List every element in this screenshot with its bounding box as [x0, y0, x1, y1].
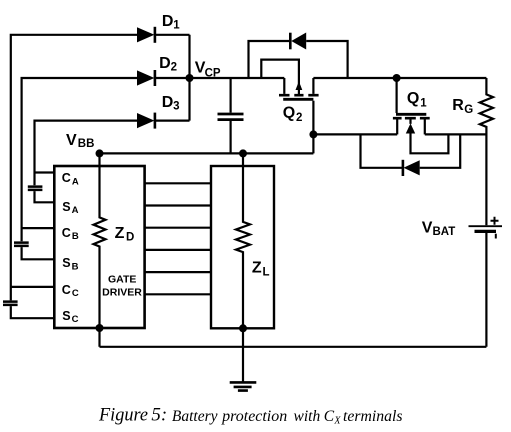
svg-text:L: L	[263, 266, 270, 278]
wire top rail (Q2 drain to RG top)	[313, 77, 486, 79]
svg-text:V: V	[66, 132, 77, 149]
svg-text:V: V	[422, 219, 433, 236]
svg-text:R: R	[452, 97, 464, 114]
svg-text:B: B	[72, 261, 79, 272]
svg-text:1: 1	[173, 19, 180, 31]
svg-text:S: S	[62, 200, 70, 214]
wire driver output rung 1	[145, 182, 211, 184]
resistor ZL	[236, 153, 250, 328]
svg-text:D: D	[126, 231, 134, 243]
diode D2	[137, 70, 156, 86]
svg-text:BB: BB	[78, 138, 95, 150]
node ZD bottom junction dot	[96, 324, 104, 332]
label D2	[159, 55, 177, 73]
svg-text:2: 2	[171, 61, 177, 73]
svg-text:D: D	[159, 55, 171, 72]
capacitor CB	[14, 243, 29, 246]
wire battery to bottom rail	[485, 233, 487, 347]
label SB	[62, 256, 78, 272]
label Q2	[283, 105, 303, 124]
wire terminal SA stub	[35, 191, 55, 202]
svg-text:A: A	[72, 176, 79, 187]
svg-text:DRIVER: DRIVER	[102, 287, 142, 299]
wire ZD to bottom rail	[98, 328, 100, 347]
wire Q2 gate to VBB rail	[312, 101, 314, 154]
wire terminal SB stub	[22, 247, 55, 259]
node VBB junction dot	[96, 149, 104, 157]
svg-text:Z: Z	[115, 225, 125, 242]
resistor ZD	[94, 153, 106, 328]
battery VBAT	[469, 217, 503, 239]
svg-text:BAT: BAT	[433, 226, 456, 238]
svg-text:3: 3	[173, 100, 179, 112]
wire Q1 source to Q2 gate junction	[313, 133, 397, 135]
svg-text:C: C	[62, 283, 71, 297]
wire driver output rung 4	[145, 249, 211, 251]
capacitor CC	[3, 302, 18, 305]
label VBB	[66, 132, 94, 150]
node ZL bottom junction dot	[239, 324, 247, 332]
label CB	[62, 226, 79, 242]
wire D2 cathode to VCP bus	[156, 77, 190, 79]
wire VBB rail	[100, 152, 314, 154]
ground	[230, 328, 257, 390]
load block ZL	[211, 166, 274, 328]
svg-text:Z: Z	[252, 259, 262, 276]
svg-text:2: 2	[296, 112, 302, 124]
svg-text:Q: Q	[407, 90, 419, 107]
label Q1	[407, 90, 427, 109]
label RG	[452, 97, 473, 116]
capacitor C1 (VCP to VBB)	[218, 78, 244, 153]
svg-text:G: G	[464, 104, 473, 116]
wire terminal CB stub	[22, 227, 55, 229]
svg-text:D: D	[162, 13, 174, 30]
svg-text:C: C	[62, 226, 71, 240]
label CA	[62, 171, 79, 187]
wire driver output rung 5	[145, 271, 211, 273]
diode D1	[137, 27, 156, 43]
label VCP	[195, 60, 221, 80]
wire terminal CC stub	[11, 286, 55, 288]
label D3	[162, 94, 180, 112]
svg-text:Q: Q	[283, 105, 295, 122]
label ZD	[115, 225, 135, 244]
svg-text:GATE: GATE	[108, 274, 136, 286]
gate driver block	[54, 166, 144, 328]
svg-text:C: C	[62, 171, 71, 185]
wire D1 cathode to VCP bus	[156, 34, 190, 36]
node ZL top junction dot	[239, 149, 247, 157]
label VBAT	[422, 219, 456, 238]
label ZL	[252, 259, 270, 278]
capacitor CA	[28, 187, 43, 190]
resistor RG	[480, 78, 493, 225]
wire VCP to Q2 source	[190, 77, 285, 79]
wire bottom ground rail	[100, 346, 487, 348]
svg-text:S: S	[62, 309, 70, 323]
svg-text:1: 1	[420, 97, 427, 109]
transistor Q2	[261, 60, 318, 100]
svg-text:D: D	[162, 94, 174, 111]
svg-text:B: B	[72, 231, 79, 242]
wire Q1 drain to RG bottom node	[425, 133, 487, 135]
svg-text:S: S	[62, 256, 70, 270]
label GATE DRIVER	[102, 274, 142, 299]
wire D2 anode rail (left vertical 2 down to cap CB)	[22, 78, 138, 241]
wire D3 cathode to VCP bus	[156, 119, 190, 121]
label CC	[62, 283, 79, 299]
wire terminal CA stub	[35, 171, 55, 173]
wire terminal SC stub	[11, 306, 55, 318]
diode D3	[137, 113, 156, 129]
wire D3 anode rail (left vertical 3 down to cap CA)	[35, 121, 138, 186]
svg-text:Figure5:BatteryprotectionwithC: Figure5:BatteryprotectionwithCXterminals	[98, 405, 402, 427]
node VCP junction dot	[186, 74, 194, 82]
svg-text:A: A	[72, 205, 79, 216]
label SC	[62, 309, 78, 325]
wire driver output rung 2	[145, 204, 211, 206]
wire VCP vertical bus	[188, 35, 190, 121]
wire D1 anode rail (left vertical 1 down to cap CC)	[11, 35, 138, 301]
label D1	[162, 13, 180, 31]
node Q1 gate junction dot	[393, 74, 401, 82]
diode D4 (Q2 body diode)	[249, 33, 348, 79]
node Q2 gate / Q1 source junction dot	[309, 130, 317, 138]
wire driver output rung 6	[145, 293, 211, 295]
diode D5 (Q1 body diode)	[361, 134, 461, 176]
svg-text:C: C	[72, 314, 79, 325]
caption Figure 5	[98, 405, 402, 427]
wire driver output rung 3	[145, 227, 211, 229]
label SA	[62, 200, 78, 216]
transistor Q1	[393, 78, 449, 153]
svg-text:C: C	[72, 288, 79, 299]
